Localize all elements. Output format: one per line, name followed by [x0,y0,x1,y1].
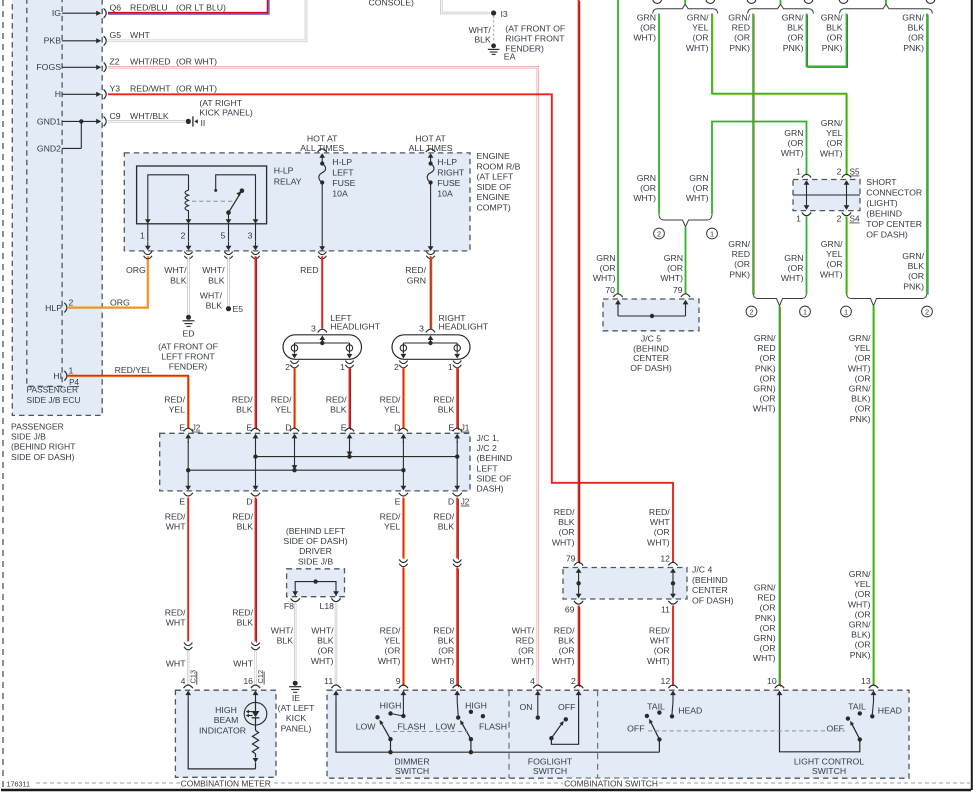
wire GRN/YEL group1 right to S5 pin 2 [713,15,848,177]
svg-text:HEAD: HEAD [678,705,702,715]
wire G5 WHT [108,0,306,41]
RIGHT HEADLIGHT pin 3 [426,329,435,332]
svg-text:69: 69 [565,605,575,615]
svg-text:EA: EA [504,52,516,62]
RIGHT HEADLIGHT pin 1 [453,361,461,364]
combination switch pin 10 [775,685,784,688]
meter pin 4 [184,685,193,688]
J/C1 internal bus B [188,469,403,471]
J/C1 internal column E (left hl 1) [349,436,351,443]
J/C1 bottom connectors and labels [184,493,193,496]
tail/head switch lever [657,737,661,741]
svg-text:WHT/BLK: WHT/BLK [130,111,169,121]
inline connector on dimmer wire 9 [399,560,407,563]
svg-text:1: 1 [796,214,801,224]
S5 internal columns [806,183,808,208]
wire RED/BLK J/C4 69 to foglight pin 2 [579,607,581,688]
svg-text:TAIL: TAIL [848,702,866,712]
svg-text:J2: J2 [192,424,201,433]
svg-text:(OR WHT): (OR WHT) [176,84,217,94]
svg-text:2: 2 [749,307,753,316]
J/C1 internal column E J2 [187,436,189,443]
dimmer mechanical link [393,731,468,733]
short connector S5 S4 box [793,180,860,211]
svg-text:2: 2 [925,307,929,316]
svg-text:HIGH: HIGH [465,700,487,710]
wire RED/WHT J/C4 11 to combination switch pin 12 [672,606,674,687]
svg-text:OFF: OFF [558,702,575,712]
wire WHT/BLK I3 to ground EA [493,16,495,43]
wire RED/WHT J/C1 to combination meter pin 4 [187,498,189,642]
combination switch pin 2 [574,685,583,688]
svg-text:PKB: PKB [44,36,62,46]
svg-text:J2: J2 [461,498,470,507]
J/C5 pin 70 [613,294,622,297]
combination switch pin 11 [331,685,340,688]
wire RED/YEL right headlight pin2 to J/C1 pin D [404,368,406,430]
svg-text:IG: IG [52,8,61,18]
J/C1 internal bus A [256,456,458,458]
svg-text:INDICATOR: INDICATOR [199,725,246,735]
svg-text:E: E [179,497,185,507]
wire GND2 to GND1 junction [80,121,82,148]
LEFT HEADLIGHT pin 1 [345,361,353,364]
splice brace row2 with circled pins 2 and 1 [659,215,712,227]
J/C1 top connectors [184,428,193,431]
relay coil [185,175,189,222]
svg-text:1: 1 [69,365,74,375]
passenger side J/B outer box [12,0,102,415]
combination switch pin 12 [668,685,677,688]
wire ORG from HLP to relay pin 1 [67,256,148,307]
wire RED/YEL left headlight pin2 to J/C1 pin D [295,368,297,430]
svg-text:FLASH: FLASH [479,721,507,731]
svg-text:2: 2 [837,167,842,177]
inline connector on meter wire 4 [184,643,192,646]
svg-text:10: 10 [767,676,777,686]
combination switch pin 4 [533,685,542,688]
LEFT HEADLIGHT lamp body [283,335,362,360]
svg-text:5: 5 [220,231,225,241]
relay pin 1 stub [147,224,149,241]
svg-text:Q6: Q6 [110,3,122,13]
wire Q6 RED/BLU [108,0,268,13]
relay switch lever [240,188,245,193]
svg-text:LOW: LOW [356,721,377,731]
S5 pin 1 top [802,174,811,177]
svg-text:12: 12 [660,554,670,564]
svg-text:E5: E5 [233,304,244,314]
meter internal arrow to ground bus [255,754,257,758]
svg-text:1: 1 [710,229,714,238]
J/C1 internal column D (left hl 2) [294,436,296,443]
svg-text:P4: P4 [69,378,79,387]
svg-text:1: 1 [140,231,145,241]
svg-text:12: 12 [661,676,671,686]
meter internal wire pin4 to bus [188,702,255,769]
svg-text:176311: 176311 [7,780,30,789]
wire WHT/BLK (OR WHT) L18 to combination switch pin 11 [335,603,338,686]
svg-text:HLP: HLP [45,303,62,313]
body ground II bolt symbol [186,119,191,124]
svg-text:FLASH: FLASH [398,721,426,731]
svg-text:F8: F8 [284,601,294,611]
svg-text:DIMMERSWITCH: DIMMERSWITCH [394,757,429,777]
svg-text:HOT AT: HOT AT [415,133,446,143]
wire WHT/BLK to I3 [441,0,490,13]
foglight switch contacts [537,702,539,716]
svg-text:11: 11 [661,605,670,615]
page left dashed border [2,0,4,789]
wire Y3 RED/WHT to J/C4 pin 12 [108,94,673,563]
svg-text:FOGLIGHTSWITCH: FOGLIGHTSWITCH [528,757,573,777]
relay pin 3 stub [255,224,257,241]
svg-text:HIGH: HIGH [380,700,402,710]
light control switch lever and feed [858,737,862,741]
svg-text:ED: ED [182,329,194,339]
label COMBINATION METER [180,779,272,789]
svg-text:J1: J1 [461,424,470,433]
brace connector group 2 [748,4,814,13]
combination meter box [175,690,276,777]
J/C1 internal column E J1 (right hl 1) [456,436,458,443]
splice brace row3 left with circled pins 2 and 1 [753,294,807,306]
combination switch divider foglight/light-control [597,690,599,778]
svg-text:HIGHBEAM: HIGHBEAM [214,705,239,725]
svg-text:2: 2 [285,362,290,372]
S4 pin 1 bottom [802,213,811,216]
J/C4 internal column 79-69 [578,571,580,596]
combination switch pin 13 [869,685,878,688]
light switches mechanical link [648,730,845,732]
J/C4 pin 11 [668,601,677,604]
svg-text:GND1: GND1 [37,116,61,126]
svg-text:Y3: Y3 [110,84,121,94]
svg-text:H: H [55,89,61,99]
wire GRN S4 pin1 to brace row3 left [806,217,808,294]
wire GRN/RED group2 left to splice brace row3 [753,15,755,295]
meter pin 16 [251,685,260,688]
ground ED [186,315,191,320]
svg-text:2: 2 [394,362,399,372]
svg-text:2: 2 [837,214,842,224]
relay switch mechanical link dashed [192,200,234,202]
dimmer switch 1 contacts [402,702,404,715]
passenger side J/B ECU inner box [27,0,62,386]
light control switch contacts [872,702,873,715]
wire Z2 WHT/RED to foglight switch pin 4 [108,67,538,686]
svg-text:RED/WHT: RED/WHT [165,512,186,532]
svg-text:ON: ON [519,702,532,712]
svg-text:ORG: ORG [110,297,130,307]
svg-text:WHT: WHT [130,30,150,40]
svg-text:2: 2 [657,229,661,238]
brace connector group 3 [840,4,933,13]
wire WHT to meter pin 16 [254,651,256,687]
svg-text:S5: S5 [850,168,860,177]
RIGHT HEADLIGHT internal filaments [403,342,457,344]
wire RED/BLK from top to J/C4 pin 79 [579,1,581,564]
svg-text:RED/WHT: RED/WHT [130,84,171,94]
svg-text:79: 79 [673,285,683,295]
combination switch pin 9 [399,685,408,688]
svg-text:11: 11 [324,676,333,686]
svg-text:Z2: Z2 [110,57,120,67]
wire GRN group1 left to splice brace [658,14,660,215]
svg-text:4: 4 [530,676,535,686]
page bottom black border [1,789,971,791]
wire WHT to meter pin 4 [187,651,189,687]
dash-operated tail/head switch contacts [672,702,673,715]
ground EA [491,43,496,48]
svg-text:COMBINATION SWITCH: COMBINATION SWITCH [564,778,658,788]
combination switch divider dimmer/foglight [508,690,510,778]
meter pin label C12 [263,672,265,685]
J/C1 internal column D (right hl 2) [402,436,404,443]
ground IE [293,681,298,686]
svg-text:RED/WHT: RED/WHT [165,608,186,628]
wire WHT/BLK F8 to ground IE [294,603,297,680]
J/C4 pin 69 [574,601,583,604]
J/C 1 J/C 2 box [160,433,470,491]
svg-text:2: 2 [571,676,576,686]
svg-text:1: 1 [448,362,453,372]
inline connector on meter wire 16 [251,643,259,646]
svg-text:OFF: OFF [627,724,644,734]
svg-text:2: 2 [181,231,186,241]
R/B bottom connectors [144,252,152,255]
svg-text:OFF: OFF [827,724,844,734]
J/C1 internal column E (relay) [255,436,257,443]
svg-text:79: 79 [566,554,576,564]
relay internal: pin3 rail and fixed contact [216,175,256,222]
page bottom dashed border [36,782,970,784]
wire GRN/RED brace row3 left to light control switch pin 10 [780,307,782,687]
RIGHT HEADLIGHT lamp body [392,335,470,360]
S4 pin 2 bottom [842,213,851,216]
svg-text:WHT/RED: WHT/RED [130,57,171,67]
svg-text:WHT: WHT [233,659,253,669]
svg-text:PASSENGERSIDE J/B ECU: PASSENGERSIDE J/B ECU [27,385,81,405]
svg-text:GND2: GND2 [37,143,61,153]
svg-text:RED/YEL: RED/YEL [115,365,152,375]
svg-text:RED/BLU: RED/BLU [130,3,168,13]
wire GRN group3 right to splice brace row3 [927,15,929,295]
svg-text:3: 3 [419,323,424,333]
RIGHT HEADLIGHT pin 2 [399,361,407,364]
svg-text:L18: L18 [320,601,335,611]
svg-text:D: D [448,497,454,507]
wire GRN brace row2 to J/C5 pin 79 [685,227,687,294]
relay pin 2 stub [188,224,190,241]
svg-text:1: 1 [844,307,848,316]
svg-text:TAIL: TAIL [647,702,665,712]
svg-text:70: 70 [605,285,615,295]
LEFT HEADLIGHT pin 2 [290,361,298,364]
wire WHT/BLK relay pin5 to splice E5 [227,256,230,306]
wire WHT/BLK relay pin2 to ground ED [187,256,190,314]
svg-text:1: 1 [803,307,807,316]
svg-text:HEAD: HEAD [878,705,902,715]
svg-text:HI: HI [53,371,62,381]
H-LP relay box [137,166,267,224]
svg-text:CONSOLE): CONSOLE) [369,0,414,7]
svg-text:3: 3 [248,231,253,241]
wire RED/BLK relay pin3 to J/C1 [256,257,258,430]
wire GRN from S5 pin1 up and over to brace row2 [712,122,807,215]
J/C4 internal column 12-11 [672,571,674,596]
foglight switch lever [549,736,553,740]
svg-text:I3: I3 [501,9,508,19]
svg-text:3: 3 [311,323,316,333]
brace connector group 1 [653,4,718,13]
wire GRN/YEL S4 pin2 to brace row3 right [847,218,849,295]
J/C 4 box [563,568,687,600]
connector pin circles group 2 [747,0,756,3]
svg-text:ALL TIMES: ALL TIMES [300,143,344,153]
combination switch box [327,690,909,778]
wire GRN long from top to J/C5 pin 70 [617,0,619,294]
dimmer switch 2 contacts [457,702,458,716]
S5 pin 2 top [842,174,851,177]
svg-text:WHT: WHT [166,659,186,669]
svg-text:8: 8 [450,676,455,686]
splice E5 [226,306,231,311]
driver side J/B box [287,569,345,597]
svg-text:ALL TIMES: ALL TIMES [409,143,453,153]
wire GRN/BLK jumper group2 right to group3 left [808,15,848,68]
svg-text:4: 4 [181,676,186,686]
wire RED/BLK J/C1 to combination meter pin 16 [256,499,258,643]
wire GRN/YEL brace row3 right to light control switch pin 13 [874,307,876,687]
svg-text:COMBINATION METER: COMBINATION METER [181,778,271,788]
high beam indicator LED [244,702,267,725]
svg-text:RED/GRN: RED/GRN [405,265,426,285]
svg-text:FOGS: FOGS [36,62,61,72]
svg-text:D: D [246,497,252,507]
wire C9 WHT/BLK to body ground II [108,120,185,123]
svg-text:13: 13 [861,676,871,686]
svg-text:1: 1 [796,167,801,177]
J/C4 pin 79 [574,562,583,565]
svg-text:(OR WHT): (OR WHT) [176,57,217,67]
splice I3 [491,10,496,15]
page right black border [971,0,973,790]
svg-text:E: E [395,497,401,507]
svg-text:G5: G5 [110,30,122,40]
J/C 5 box [603,299,699,331]
driver J/B pin L18 [331,598,340,601]
svg-text:ORG: ORG [126,265,146,275]
meter resistor [255,718,257,731]
svg-text:C9: C9 [110,111,121,121]
label COMBINATION SWITCH [563,779,659,789]
wire RED/YEL J/C1 to dimmer pin 9 [404,499,406,560]
relay internal: pin1 riser and top rail [148,175,189,222]
wire RED/YEL from HI to J/C1 pin E J2 [68,377,189,430]
svg-text:HOT AT: HOT AT [307,133,338,143]
driver J/B pin F8 [291,598,300,601]
svg-text:C13: C13 [189,670,198,684]
meter pin label C13 [196,672,198,685]
svg-text:S4: S4 [850,215,860,224]
svg-text:16: 16 [243,676,253,686]
J/C5 pin 79 [681,294,690,297]
svg-text:C12: C12 [256,670,265,684]
driver J/B internal bus [295,582,336,596]
dimmer switch 1 lever [388,737,392,741]
LEFT HEADLIGHT pin 3 [318,329,327,332]
svg-text:II: II [201,118,206,128]
wire RED/BLK J/C1 to dimmer pin 8 [457,499,459,560]
dimmer switch 2 lever [469,737,473,741]
relay pin 5 stub [228,224,230,241]
engine room R/B box [124,153,470,251]
svg-text:1: 1 [340,362,345,372]
svg-text:LOW: LOW [436,721,457,731]
wire RED/BLK left headlight pin1 to J/C1 pin E [350,368,352,430]
svg-text:9: 9 [396,676,401,686]
wire RED/BLK right headlight pin1 to J/C1 pin E J1 [457,368,459,430]
inline connector on dimmer wire 8 [453,560,461,563]
J/C4 pin 12 [668,562,677,565]
J/C5 internal splice [617,302,619,308]
svg-text:2: 2 [69,297,74,307]
connector pin circles group 1 [653,0,662,3]
splice brace row3 right with circled pins 1 and 2 [847,294,928,306]
svg-text:(OR LT BLU): (OR LT BLU) [176,3,226,13]
relay pin5 riser [228,213,230,222]
switch ground bus from pin 11 [336,702,659,753]
LEFT HEADLIGHT internal filaments [295,342,350,344]
svg-text:RED: RED [300,265,318,275]
combination switch pin 8 [453,685,462,688]
connector pin circles group 3 [839,0,848,3]
